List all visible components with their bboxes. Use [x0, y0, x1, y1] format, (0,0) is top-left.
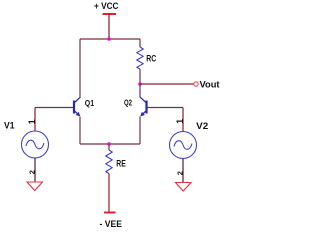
wire Q2 base: [148, 107, 184, 109]
wire Q1 collector vertical: [79, 39, 81, 98]
wire Q1 emitter vertical: [79, 117, 81, 145]
svg-text:Vout: Vout: [200, 79, 220, 89]
svg-text:- VEE: - VEE: [100, 219, 123, 229]
svg-text:RE: RE: [116, 158, 126, 168]
wire V2 drop: [182, 108, 184, 132]
wire Q2 collector vertical: [139, 84, 141, 98]
power symbol +VCC: [103, 14, 117, 39]
svg-text:Q2: Q2: [124, 99, 132, 108]
wire top horizontal: [80, 38, 140, 40]
junction Vout node: [138, 82, 142, 86]
wire V1 drop: [34, 108, 36, 132]
resistor RC: [137, 47, 144, 69]
wire Q1 base: [35, 107, 73, 109]
resistor RE: [106, 150, 113, 174]
svg-text:Q1: Q1: [85, 99, 95, 108]
wire V1 to ground: [34, 158, 36, 182]
svg-text:RC: RC: [146, 54, 156, 64]
power symbol -VEE: [104, 212, 116, 214]
terminal Vout pin: [194, 82, 198, 86]
svg-text:2: 2: [28, 170, 37, 174]
wire bottom horizontal: [80, 143, 140, 145]
svg-text:1: 1: [175, 119, 185, 124]
svg-text:+ VCC: + VCC: [94, 1, 119, 11]
svg-text:2: 2: [176, 171, 185, 175]
ground V2: [176, 183, 192, 192]
transistor Q2: [140, 97, 146, 116]
svg-text:1: 1: [27, 119, 37, 124]
wire V2 to ground: [182, 159, 184, 183]
wire RC top: [139, 39, 141, 47]
transistor Q1: [74, 97, 80, 116]
wire Vout horizontal: [140, 83, 194, 85]
wire Q2 emitter vertical: [139, 117, 141, 145]
wire RE bottom: [108, 174, 110, 213]
svg-text:V2: V2: [196, 121, 208, 131]
wire RE top: [108, 144, 110, 150]
svg-text:V1: V1: [4, 120, 15, 130]
wire RC bottom: [139, 69, 141, 84]
source V1: [22, 131, 49, 158]
source V2: [170, 132, 197, 159]
junction VCC node: [107, 37, 111, 41]
ground V1: [27, 182, 43, 191]
junction emitter node: [107, 142, 111, 146]
